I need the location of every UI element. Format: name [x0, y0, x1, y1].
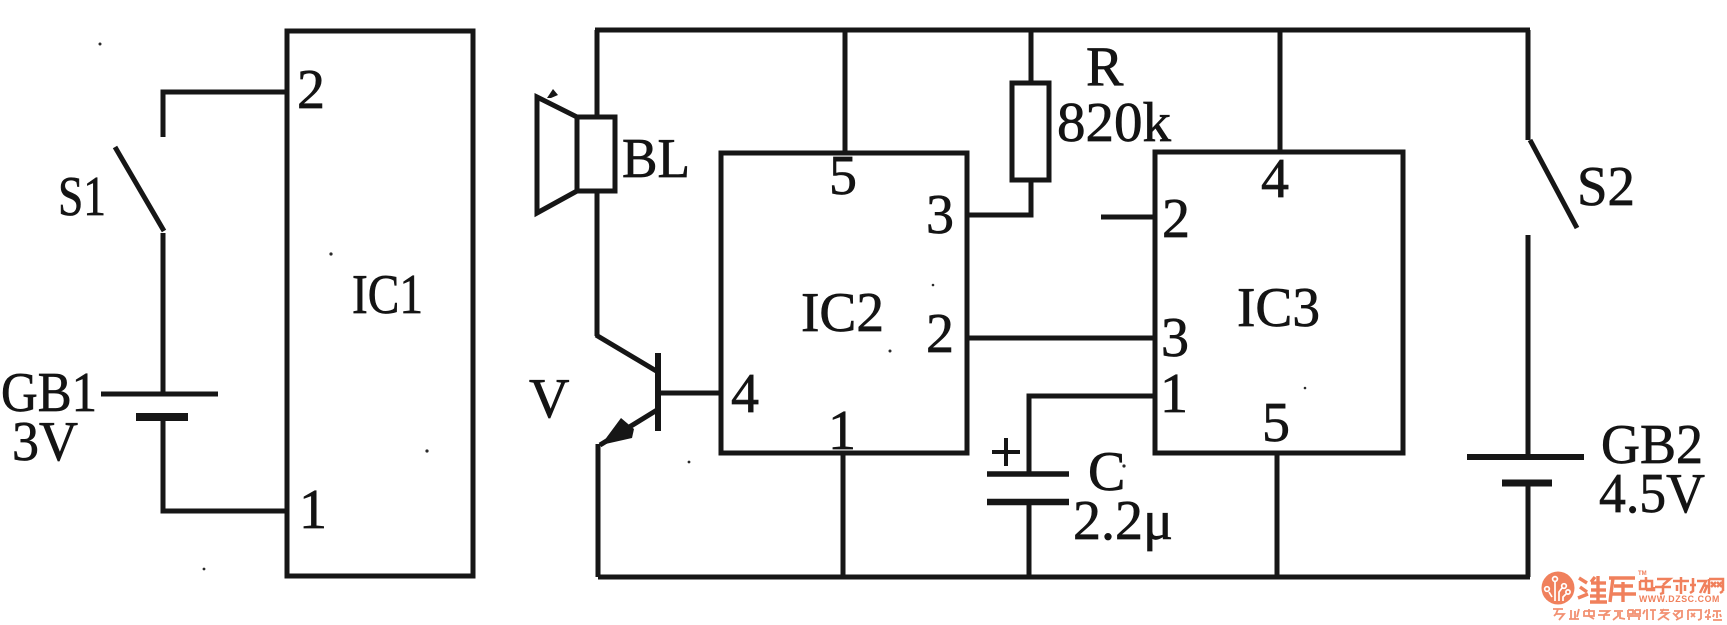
- svg-text:V: V: [529, 368, 569, 430]
- transistor V emitter: [600, 410, 657, 445]
- wire speaker to transistor collector: [595, 191, 600, 336]
- capacitor C bottom plate: [987, 499, 1069, 506]
- capacitor plus sign: [992, 438, 1020, 466]
- svg-text:4: 4: [731, 363, 759, 425]
- switch S1: [115, 147, 164, 231]
- wire IC2 pin2 to IC3 pin3: [967, 336, 1155, 341]
- svg-text:IC3: IC3: [1237, 277, 1320, 339]
- speaker BL horn: [537, 97, 577, 213]
- battery GB1 long plate: [101, 392, 218, 397]
- svg-text:5: 5: [1262, 392, 1290, 454]
- speaker small arrow: [547, 89, 558, 98]
- svg-text:820k: 820k: [1057, 92, 1171, 154]
- wire GB1 to pin1 IC1: [163, 419, 287, 511]
- top rail: [595, 28, 1530, 33]
- IC3: [1155, 152, 1403, 453]
- svg-text:WWW.DZSC.COM: WWW.DZSC.COM: [1639, 594, 1720, 604]
- svg-text:BL: BL: [622, 128, 690, 190]
- svg-text:2.2μ: 2.2μ: [1073, 490, 1173, 552]
- svg-text:TM: TM: [1638, 571, 1647, 577]
- wire rail to IC3 pin4: [1278, 30, 1283, 152]
- wire IC3 pin5 to bottom rail: [1275, 453, 1280, 577]
- resistor R wire top: [1029, 30, 1034, 82]
- transistor V base wire: [658, 391, 721, 396]
- wire S2 to GB2: [1526, 235, 1531, 455]
- svg-text:IC2: IC2: [801, 282, 884, 344]
- watermark char 网: [1709, 579, 1723, 594]
- transistor V emitter arrowhead: [601, 418, 634, 445]
- transistor V collector: [596, 335, 658, 372]
- resistor R body: [1012, 83, 1049, 180]
- svg-text:IC1: IC1: [352, 264, 423, 326]
- wire GB2 to bottom rail: [1526, 486, 1531, 577]
- watermark logo circle: [1542, 572, 1575, 605]
- switch S2: [1530, 140, 1577, 228]
- wire pin2 IC1 to S1: [163, 92, 287, 137]
- transistor V base bar: [655, 353, 661, 431]
- wire S1 to GB1: [161, 233, 166, 392]
- watermark char 电: [1640, 577, 1654, 590]
- svg-text:5: 5: [829, 145, 857, 207]
- svg-text:R: R: [1086, 36, 1124, 98]
- battery GB2 long plate: [1467, 454, 1584, 460]
- capacitor C top plate: [987, 471, 1069, 477]
- svg-text:1: 1: [299, 479, 327, 541]
- watermark line2 专业电子元器件交易网站: [1553, 609, 1722, 620]
- wire rail to speaker: [595, 30, 600, 117]
- wire IC3 pin1 to capacitor: [1029, 396, 1155, 472]
- svg-text:1: 1: [1160, 363, 1188, 425]
- svg-text:S1: S1: [58, 166, 106, 228]
- battery GB2 short plate: [1502, 480, 1552, 487]
- watermark char 市: [1673, 577, 1689, 594]
- wire rail to S2: [1526, 30, 1531, 140]
- svg-text:4.5V: 4.5V: [1599, 463, 1705, 525]
- scan specks: [99, 43, 1307, 571]
- wire emitter to bottom rail: [596, 444, 601, 577]
- svg-text:3: 3: [1161, 307, 1189, 369]
- svg-text:2: 2: [1162, 188, 1190, 250]
- svg-text:3: 3: [926, 184, 954, 246]
- wire IC2 pin1 to bottom rail: [841, 453, 846, 577]
- svg-text:1: 1: [828, 400, 856, 462]
- watermark char 场: [1690, 578, 1707, 593]
- wire capacitor to bottom rail: [1027, 504, 1032, 577]
- watermark char 维: [1578, 576, 1607, 602]
- battery GB1 short plate: [136, 413, 188, 421]
- wire rail to IC2 pin5: [843, 30, 848, 153]
- IC2: [721, 153, 967, 453]
- bottom rail: [598, 575, 1530, 580]
- IC1: [287, 31, 473, 576]
- resistor R wire bottom to IC2 pin3: [967, 179, 1031, 215]
- svg-text:2: 2: [926, 303, 954, 365]
- svg-text:S2: S2: [1577, 156, 1635, 218]
- svg-text:2: 2: [297, 59, 325, 121]
- svg-text:4: 4: [1261, 148, 1289, 210]
- watermark char 库: [1609, 578, 1636, 602]
- speaker BL coil: [577, 117, 615, 191]
- IC3 pin2 stub: [1101, 215, 1155, 220]
- svg-text:3V: 3V: [12, 411, 78, 473]
- watermark char 子: [1655, 579, 1671, 594]
